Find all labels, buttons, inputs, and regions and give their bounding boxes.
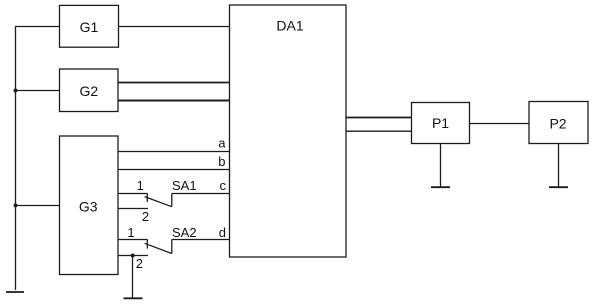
svg-text:b: b	[218, 154, 225, 169]
svg-text:1: 1	[137, 178, 144, 193]
svg-text:P1: P1	[432, 115, 449, 131]
svg-text:d: d	[219, 225, 226, 240]
svg-text:DA1: DA1	[276, 18, 303, 34]
svg-text:1: 1	[127, 225, 134, 240]
svg-text:c: c	[220, 178, 227, 193]
svg-text:P2: P2	[549, 116, 566, 132]
svg-text:G3: G3	[79, 199, 98, 215]
svg-text:2: 2	[142, 209, 149, 224]
svg-text:G1: G1	[80, 19, 99, 35]
svg-text:SA2: SA2	[172, 225, 197, 240]
svg-text:2: 2	[136, 256, 143, 271]
svg-text:SA1: SA1	[172, 178, 197, 193]
svg-text:G2: G2	[79, 83, 98, 99]
svg-text:a: a	[218, 136, 226, 151]
